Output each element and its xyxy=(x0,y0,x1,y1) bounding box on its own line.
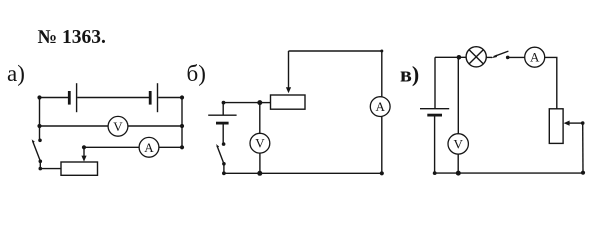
wire: v voltmeter branch lower xyxy=(457,154,459,173)
node: a left middle junction xyxy=(37,124,41,128)
node: b battery top xyxy=(222,101,226,105)
svg-text:A: A xyxy=(376,99,386,114)
svg-text:V: V xyxy=(113,119,123,134)
switch S1 blade xyxy=(33,141,41,161)
wire: a left vertical xyxy=(39,98,41,141)
wire: a ammeter to right vertical xyxy=(159,146,182,148)
switch S3 right contact xyxy=(506,56,510,60)
voltmeter PV1 circle xyxy=(108,116,128,136)
wire: v wiper down xyxy=(582,123,584,173)
switch S3 blade xyxy=(494,51,509,57)
switch S2 bottom contact xyxy=(222,162,226,166)
battery GB2 negative short plate xyxy=(216,122,229,125)
node: b bottom-right corner xyxy=(380,171,384,175)
switch S1 top contact xyxy=(38,139,42,143)
wire: v voltmeter branch upper xyxy=(457,57,459,134)
svg-text:а): а) xyxy=(7,61,25,86)
wire: b voltmeter branch lower xyxy=(259,153,261,173)
svg-text:A: A xyxy=(144,140,154,155)
ammeter PA1 circle xyxy=(139,137,159,157)
svg-text:б): б) xyxy=(187,61,206,86)
battery GB1 cell2 positive long plate xyxy=(157,83,159,112)
svg-text:в): в) xyxy=(400,62,419,87)
wire: b voltmeter branch upper xyxy=(259,103,261,134)
svg-text:№ 1363.: № 1363. xyxy=(38,27,106,48)
switch S2 blade xyxy=(217,146,224,164)
node: b top-right corner xyxy=(380,50,383,53)
node: v voltmeter bottom junction xyxy=(456,171,461,176)
wire: v top-left xyxy=(435,56,466,58)
node: a wiper junction xyxy=(82,145,86,149)
svg-text:V: V xyxy=(454,136,464,151)
wire: b battery vertical upper xyxy=(222,103,224,115)
battery GB1 cell1 positive long plate xyxy=(76,83,78,112)
wire: a right vertical xyxy=(181,98,183,148)
wire: v lamp to switch xyxy=(486,56,492,58)
lamp EL1 circle xyxy=(466,47,486,67)
wire: b battery to switch xyxy=(222,123,224,144)
wire: b switch to bottom xyxy=(223,164,225,174)
switch S2 blade tip xyxy=(216,144,219,148)
wire: v left vertical upper xyxy=(434,57,436,108)
rheostat R1 body xyxy=(61,162,98,175)
ammeter PA2 circle xyxy=(370,97,390,117)
wire: b top xyxy=(289,50,382,52)
wire: b right vertical upper xyxy=(381,51,383,97)
node: v lamp-branch junction xyxy=(457,55,462,60)
rheostat R2 body xyxy=(271,95,306,109)
wire: v left vertical lower xyxy=(434,115,436,173)
wire: a wiper to ammeter xyxy=(84,146,139,148)
battery GB3 negative short plate xyxy=(427,114,442,117)
battery GB1 cell2 negative short plate xyxy=(149,91,152,105)
node: v bottom-right corner xyxy=(581,171,585,175)
wire: b node to rheostat xyxy=(260,102,271,104)
wire: b battery top xyxy=(224,102,260,104)
switch S1 blade tip xyxy=(32,139,35,143)
wire: b bottom xyxy=(224,172,382,174)
battery GB2 positive long plate xyxy=(208,114,236,116)
rheostat R2 wiper arrow xyxy=(288,51,290,89)
node: v wiper corner xyxy=(581,121,585,125)
wire: a switch to rheostat xyxy=(40,161,61,168)
node: a bottom corner xyxy=(39,167,43,171)
node: b bottom junction xyxy=(257,171,262,176)
wire: b right vertical lower xyxy=(381,116,383,173)
voltmeter PV3 circle xyxy=(448,134,468,154)
node: b bottom-left corner xyxy=(222,171,226,175)
node: v bottom-left junction xyxy=(433,171,437,175)
rheostat R1 wiper arrow xyxy=(83,147,85,157)
rheostat R3 wiper arrow xyxy=(568,122,583,124)
switch S2 top contact xyxy=(222,142,226,146)
switch S3 blade tip xyxy=(491,55,497,59)
node: b top junction xyxy=(257,100,262,105)
voltmeter PV2 circle xyxy=(250,133,270,153)
svg-text:V: V xyxy=(255,136,265,151)
wire: a voltmeter row xyxy=(40,125,183,127)
battery GB1 cell1 negative short plate xyxy=(68,91,71,105)
wire: v ammeter to right corner xyxy=(545,57,557,108)
rheostat R3 body xyxy=(549,109,563,144)
node: a top-right junction xyxy=(180,95,184,99)
battery GB3 positive long plate xyxy=(420,108,449,110)
wire: v bottom xyxy=(435,172,583,174)
wire: v switch to ammeter xyxy=(508,56,525,58)
node: a top-left junction xyxy=(37,95,41,99)
ammeter PA3 circle xyxy=(525,47,545,67)
node: a right middle junction xyxy=(180,124,184,128)
node: a bottom-right corner xyxy=(180,145,184,149)
svg-text:A: A xyxy=(530,50,540,65)
wire: a top (battery loop) xyxy=(40,97,183,99)
switch S1 bottom contact xyxy=(39,160,43,164)
lamp EL1 cross xyxy=(469,50,483,64)
